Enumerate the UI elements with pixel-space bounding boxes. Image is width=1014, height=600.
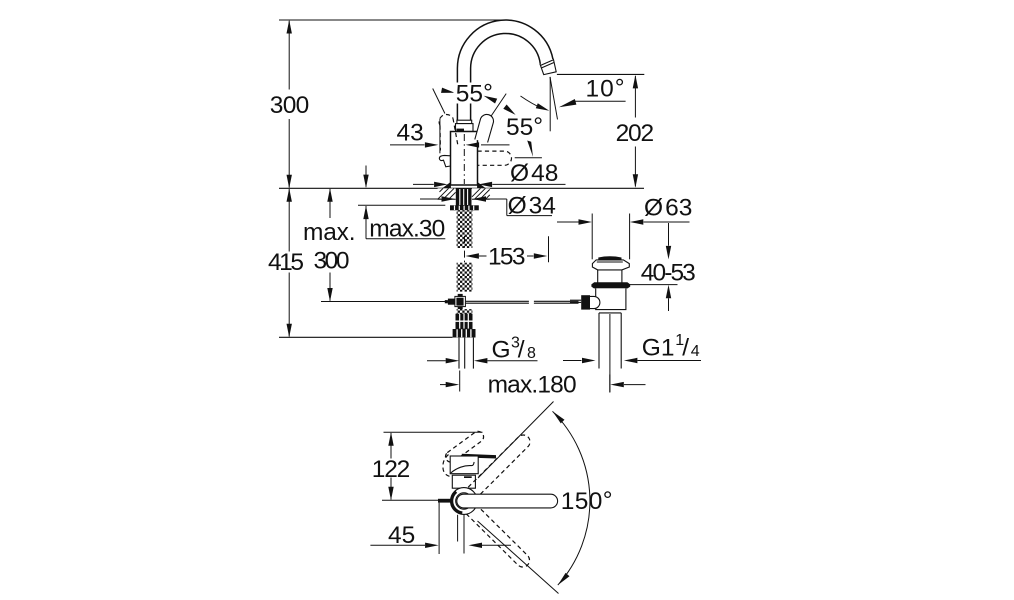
svg-text:300: 300 xyxy=(314,247,350,274)
rod clamp knob (black) and nut xyxy=(581,295,590,309)
svg-text:/: / xyxy=(682,334,689,361)
water stream vertical reference xyxy=(549,77,551,131)
svg-text:max.: max. xyxy=(303,219,356,246)
spout gooseneck (front view) xyxy=(457,20,556,122)
aerator tip xyxy=(540,59,556,75)
counter cross-section hatching right xyxy=(472,188,490,199)
leader for Ø48 pointing at lever xyxy=(510,141,558,187)
pop-up rod coupling at shank xyxy=(445,294,466,310)
202 top reference line xyxy=(557,73,644,75)
svg-text:max.180: max.180 xyxy=(488,372,577,399)
dimension 122 xyxy=(372,432,483,500)
svg-text:G1: G1 xyxy=(642,334,675,361)
dimension max.30 xyxy=(358,166,445,243)
top reference line xyxy=(279,19,506,21)
dimension 45 xyxy=(370,503,511,554)
side view body lower xyxy=(452,475,475,488)
dashed spout (down-right position) xyxy=(466,504,529,567)
dimension 43 xyxy=(390,119,510,154)
shank centerline gap xyxy=(464,236,466,263)
back tab (aerator rear) xyxy=(438,499,451,503)
svg-text:4: 4 xyxy=(691,343,700,360)
dashed lever capsule (left position) xyxy=(439,114,453,125)
svg-text:Ø48: Ø48 xyxy=(510,160,558,187)
dimension Ø63 xyxy=(557,195,692,260)
drain rod into clamp xyxy=(570,299,581,301)
side hook lever (left of body) xyxy=(439,155,450,166)
bottom reference line (415 end) xyxy=(279,336,453,338)
dimension Ø48 line xyxy=(413,182,566,187)
svg-text:max.30: max.30 xyxy=(369,215,445,242)
dashed spout (up-right position) xyxy=(468,435,530,497)
55 degree (first) annotation xyxy=(433,80,518,118)
pop-up waste flange xyxy=(592,260,629,270)
10 degree leader xyxy=(559,75,626,108)
svg-text:/: / xyxy=(518,336,525,363)
dimension max.180 xyxy=(440,371,646,399)
dimension G1 1/4 xyxy=(563,332,701,363)
150 degree boundary lines xyxy=(478,402,554,479)
dimension 40-53 xyxy=(625,223,696,311)
water stream 10-degree line xyxy=(550,77,558,120)
spout capsule (horizontal, side view) xyxy=(457,494,558,508)
svg-text:122: 122 xyxy=(372,456,411,483)
svg-text:45: 45 xyxy=(388,522,415,549)
dashed lever swung left arcs xyxy=(443,455,450,477)
counter cross-section hatching left xyxy=(438,188,456,199)
base flare wedges xyxy=(442,182,451,189)
cartridge dome curve xyxy=(451,462,474,473)
waste body shoulder xyxy=(599,312,621,314)
150 degree arc with arrows xyxy=(553,411,590,585)
dimension Ø34 xyxy=(420,193,556,220)
max.300 lower reference line joining pop-up rod xyxy=(321,301,448,303)
svg-text:10°: 10° xyxy=(586,75,626,103)
dimension max. 300 (left inner) xyxy=(303,188,356,301)
waste seal ring (black) xyxy=(591,282,630,288)
svg-text:150°: 150° xyxy=(561,487,613,515)
svg-text:40-53: 40-53 xyxy=(641,259,696,286)
dimension 415 (left) xyxy=(268,188,304,337)
svg-text:153: 153 xyxy=(488,243,526,270)
pop-up rod (horizontal, broken) xyxy=(466,301,579,303)
side view lever plate (dark bar) xyxy=(462,454,496,459)
threaded shank lower segment (checkered) xyxy=(457,263,473,292)
svg-text:202: 202 xyxy=(616,120,655,147)
pop-up waste plug (black top) xyxy=(598,256,621,260)
shank below coupling (checkered) xyxy=(457,309,473,314)
solid lever capsule (right position) xyxy=(475,114,494,142)
dashed lever capsule (horizontal position) xyxy=(478,151,512,165)
drain centerline xyxy=(609,314,611,392)
svg-text:300: 300 xyxy=(270,92,310,119)
dimension G3/8 xyxy=(427,335,538,364)
dimension 202 xyxy=(616,75,655,188)
mounting nut/washer bar xyxy=(450,205,479,210)
swivel joint circles xyxy=(451,488,478,515)
threaded shank upper segment (checkered) xyxy=(457,210,473,248)
svg-text:8: 8 xyxy=(527,345,536,362)
svg-text:Ø63: Ø63 xyxy=(644,195,692,222)
faucet body (front view) xyxy=(451,132,478,186)
dimension 300 (left) xyxy=(270,20,310,188)
dashed lever (up position, side view) xyxy=(446,431,484,462)
dimension 153 xyxy=(465,236,548,270)
waste lower body xyxy=(596,288,626,309)
svg-text:43: 43 xyxy=(397,120,424,147)
svg-text:55°: 55° xyxy=(506,113,543,141)
waste upper body xyxy=(598,270,622,283)
55 degree (second) annotation xyxy=(506,96,550,141)
svg-text:55°: 55° xyxy=(456,80,493,108)
countertop line xyxy=(279,187,644,189)
svg-text:G: G xyxy=(492,336,511,363)
lever vertical (riser) with transition block xyxy=(456,120,474,131)
svg-text:Ø34: Ø34 xyxy=(508,193,556,220)
side view body upper xyxy=(450,456,478,474)
svg-text:415: 415 xyxy=(268,249,304,276)
body centerline xyxy=(463,134,465,184)
hose connector nuts xyxy=(453,314,476,338)
mounting shank through counter (black with slots) xyxy=(456,188,472,205)
waste tailpipe xyxy=(598,313,600,369)
supply hoses xyxy=(459,338,473,369)
